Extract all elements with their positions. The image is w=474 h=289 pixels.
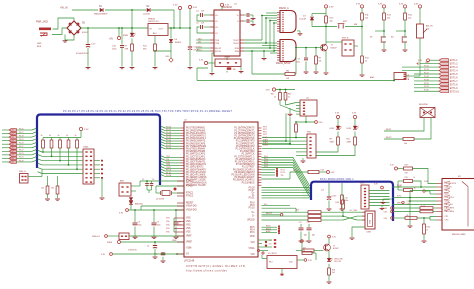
svg-text:P0.19: P0.19: [19, 139, 23, 141]
ground: [381, 206, 383, 208]
svg-text:3.3V: 3.3V: [173, 5, 178, 7]
solder jumper AGB2: [262, 231, 278, 233]
wire: [383, 20, 385, 37]
pin stub: [181, 135, 185, 137]
wire: [369, 196, 390, 198]
svg-text:P0.4/SCK0/CAP0.1: P0.4/SCK0/CAP0.1: [186, 137, 207, 140]
wire: [354, 119, 356, 126]
svg-text:EXT2-10: EXT2-10: [450, 91, 460, 93]
svg-text:P0.11/CTS1/CAP1.: P0.11/CTS1/CAP1.: [186, 155, 206, 158]
svg-text:C15: C15: [345, 197, 348, 199]
junction: [409, 197, 411, 199]
pin CP1: [437, 216, 443, 218]
bus tap: [302, 187, 310, 189]
wire: [337, 132, 339, 138]
capacitor C22: [162, 252, 164, 254]
resistor R9: [315, 48, 317, 56]
svg-text:P0.11: P0.11: [264, 156, 268, 158]
svg-text:P0.6: P0.6: [250, 232, 255, 234]
junction: [261, 15, 263, 17]
wire rows MCU right fan to bus: [262, 158, 311, 186]
svg-text:0.17: 0.17: [10, 133, 13, 135]
svg-text:VREF: VREF: [172, 240, 176, 242]
resistor R31: [403, 138, 414, 141]
junction: [265, 42, 267, 44]
svg-text:100n: 100n: [407, 204, 411, 206]
junction: [51, 155, 53, 157]
supply +3.3V: [204, 61, 207, 64]
wire: [352, 227, 365, 237]
wire: [342, 209, 344, 216]
junction: [131, 27, 133, 29]
net flag GND: [169, 58, 173, 62]
bus MMC bus: [311, 182, 393, 221]
pushbutton RST: [338, 24, 340, 28]
pin stub: [181, 137, 185, 139]
svg-text:3.3V: 3.3V: [225, 5, 230, 7]
wire: [397, 181, 399, 190]
svg-text:P0.14: P0.14: [264, 164, 268, 166]
svg-text:P0.5/MISO0/MAT0.: P0.5/MISO0/MAT0.: [186, 140, 206, 143]
pin stub: [258, 176, 262, 178]
svg-text:PKT2: PKT2: [263, 132, 267, 134]
svg-text:C1-: C1-: [215, 21, 218, 23]
junction: [134, 209, 136, 211]
junction: [251, 50, 253, 52]
resistor R20: [295, 122, 297, 124]
wire: [325, 8, 327, 14]
junction: [265, 17, 267, 19]
pin stub: [181, 130, 185, 132]
pin stub: [258, 158, 262, 160]
resistor R11: [361, 13, 364, 20]
resistor R10: [325, 14, 327, 17]
net flag small: [257, 249, 259, 251]
wire: [296, 107, 300, 109]
wire: [361, 8, 363, 13]
capacitor C9: [305, 48, 307, 57]
pin T1IN: [210, 39, 214, 41]
wire: [262, 147, 307, 149]
svg-text:R102: R102: [427, 226, 431, 228]
svg-text:VREF=3.3: VREF=3.3: [92, 236, 100, 238]
ground: [188, 67, 193, 69]
svg-text:R9: R9: [319, 58, 321, 60]
pin R2OUT: [210, 50, 214, 52]
bus tap: [38, 150, 43, 152]
ground: [251, 23, 256, 25]
diode D3: [311, 14, 313, 17]
junction: [383, 30, 385, 32]
net flag P0.28: [2, 161, 9, 163]
wire: [384, 138, 403, 140]
pin stub: [258, 179, 262, 181]
bus tap: [161, 164, 165, 166]
resistor R19: [398, 180, 404, 182]
svg-text:P0.18: P0.18: [19, 135, 23, 137]
transistor T2: [324, 244, 331, 251]
pad: [281, 274, 284, 276]
net flag EXT1-6: [414, 76, 439, 78]
capacitor C17: [86, 44, 90, 46]
svg-text:C12: C12: [299, 222, 302, 224]
svg-text:RST: RST: [343, 21, 348, 23]
supply +3.3V: [391, 207, 394, 210]
ground: [86, 67, 91, 69]
ground: [130, 67, 135, 69]
wire: [173, 10, 175, 28]
svg-text:1k: 1k: [414, 177, 416, 179]
junction: [121, 27, 123, 29]
bus tap: [32, 157, 37, 159]
svg-text:P0.25/AD0.4/AOUT: P0.25/AD0.4/AOUT: [234, 176, 255, 179]
junction: [404, 30, 406, 32]
pin RESET: [177, 202, 184, 204]
svg-text:C13: C13: [307, 222, 310, 224]
solder jumper P0.13: [262, 171, 276, 173]
net flag EXT1-8: [414, 83, 439, 85]
wire: [296, 104, 300, 106]
svg-text:P0.12: P0.12: [264, 159, 268, 161]
IC U2 LPC2148: [184, 122, 258, 257]
bus tap: [32, 139, 37, 141]
trimmer AN_TR: [417, 24, 424, 38]
pin stub: [181, 170, 185, 172]
svg-text:RST_E: RST_E: [342, 38, 349, 40]
wire: [212, 52, 214, 54]
wire: [155, 43, 171, 51]
resistor R37: [393, 211, 420, 213]
ground: [153, 67, 158, 69]
wire: [296, 121, 315, 123]
supply +3.3V: [79, 127, 82, 130]
net TCK: [165, 162, 181, 164]
svg-text:http://www.olimex.com/dev: http://www.olimex.com/dev: [186, 269, 228, 273]
bus tap: [32, 160, 37, 162]
pin stub: [258, 145, 262, 147]
pin C2+: [210, 26, 214, 28]
resistor R9: [337, 137, 340, 145]
svg-text:PWR_JACK: PWR_JACK: [36, 21, 49, 24]
resistor R25: [308, 211, 321, 214]
svg-text:VSSA: VSSA: [249, 247, 255, 250]
bus tap: [161, 142, 165, 144]
diode D7: [169, 39, 173, 42]
svg-text:LPC2148: LPC2148: [184, 260, 195, 263]
svg-text:BUZ1: BUZ1: [386, 129, 392, 131]
wire: [337, 119, 339, 126]
pin XTAL2: [177, 185, 184, 187]
resistor RN4 1k: [68, 138, 70, 141]
svg-text:0.18: 0.18: [10, 137, 13, 139]
svg-text:0.25: 0.25: [10, 158, 13, 160]
svg-text:P0.18: P0.18: [424, 76, 429, 78]
net P0.18: [165, 132, 181, 134]
wire: [316, 145, 338, 152]
wire: [369, 193, 390, 195]
svg-text:P0.25: P0.25: [166, 147, 171, 149]
svg-text:VSSA-DIG: VSSA-DIG: [186, 205, 197, 208]
transistor T1: [321, 44, 328, 51]
svg-text:MMC/SD CARD: MMC/SD CARD: [452, 233, 466, 236]
svg-text:VSS: VSS: [186, 221, 191, 223]
bus tap: [161, 175, 165, 177]
ground: [403, 49, 408, 51]
jumper VREF: [119, 233, 129, 240]
wire: [413, 169, 437, 184]
pin T2OUT: [240, 42, 244, 44]
ground: [327, 281, 332, 283]
svg-text:V18A: V18A: [186, 247, 192, 250]
svg-text:LPWR: LPWR: [224, 57, 231, 59]
svg-text:3.3V: 3.3V: [193, 7, 198, 9]
svg-text:P0.13: P0.13: [424, 69, 429, 71]
wire: [105, 9, 146, 11]
voltage regulator VREG1: [148, 24, 168, 36]
svg-text:+VL_USB: +VL_USB: [349, 210, 358, 212]
junction: [315, 47, 317, 49]
resistor RN5 1k: [76, 138, 78, 141]
supply +3.3V: [301, 240, 304, 243]
pin stub: [181, 145, 185, 147]
svg-text:3.3V: 3.3V: [414, 3, 419, 5]
svg-text:PKT3: PKT3: [263, 134, 267, 136]
net TX1: [196, 42, 210, 44]
svg-text:R9: R9: [330, 139, 332, 141]
svg-text:XTAL2: XTAL2: [186, 185, 193, 188]
svg-text:SM4001/MELF: SM4001/MELF: [94, 14, 108, 16]
junction: [305, 121, 307, 123]
wire: [410, 190, 437, 192]
svg-text:P1.24/TRACECLK: P1.24/TRACECLK: [236, 148, 255, 151]
bus tap: [32, 153, 37, 155]
junction blob: [174, 188, 177, 191]
svg-text:100n: 100n: [345, 200, 349, 202]
svg-text:C14: C14: [321, 189, 324, 191]
wire: [42, 148, 44, 152]
junction: [173, 27, 175, 29]
capacitor C5A: [145, 183, 149, 185]
pin VBAT: [177, 235, 184, 237]
supply +3.3V: [403, 5, 406, 8]
svg-text:P1.28/TDI/MAT1.2: P1.28/TDI/MAT1.2: [236, 158, 256, 161]
wire: [204, 14, 211, 16]
svg-text:C9: C9: [298, 59, 300, 61]
wire: [131, 39, 133, 45]
bus tap: [32, 150, 37, 152]
svg-text:R16: R16: [288, 94, 291, 96]
wire: [94, 177, 100, 179]
pin stub: [258, 135, 262, 137]
junction: [273, 50, 275, 52]
supply +3.3V: [395, 167, 398, 170]
connector USB: [365, 211, 375, 229]
bus tap: [161, 131, 165, 133]
capacitor C7: [247, 19, 249, 23]
svg-text:P0.19/MAT1.2/MOS: P0.19/MAT1.2/MOS: [186, 176, 207, 179]
bus tap: [38, 163, 43, 165]
bus tap: [161, 129, 165, 131]
ground: [314, 71, 319, 73]
wire: [419, 8, 421, 24]
resistor R22: [398, 189, 404, 191]
svg-text:EXT1-4: EXT1-4: [450, 71, 459, 73]
wire: [312, 252, 316, 254]
pin stub: [181, 140, 185, 142]
wire: [262, 144, 307, 146]
wire: [94, 164, 100, 166]
svg-text:2k: 2k: [303, 250, 305, 252]
pin stub: [362, 219, 365, 221]
svg-text:1k: 1k: [49, 135, 51, 137]
pin stub: [258, 130, 262, 132]
wire: [301, 242, 303, 251]
wire: [94, 160, 100, 162]
ferrite FB1: [252, 73, 285, 75]
wire: [65, 35, 74, 41]
pin stub: [181, 167, 185, 169]
pin stub: [258, 169, 262, 171]
net RTCK: [165, 170, 181, 172]
wire: [204, 26, 211, 28]
wire: [131, 190, 136, 192]
net flag P0.18: [2, 136, 9, 138]
wire: [311, 20, 313, 26]
svg-text:P1.22/PIPESTAT1: P1.22/PIPESTAT1: [236, 142, 255, 145]
svg-text:RESET: RESET: [186, 203, 194, 205]
solder jumper RB.04: [262, 229, 278, 231]
pin stub: [258, 148, 262, 150]
pin CD/DAT3/CS: [437, 183, 443, 185]
pin stub: [258, 174, 262, 176]
wire: [52, 28, 68, 35]
svg-text:P0.30/AD0.3/EINT3: P0.30/AD0.3/EINT3: [234, 171, 255, 174]
svg-text:LED2: LED2: [347, 128, 352, 130]
svg-text:M1: M1: [458, 176, 461, 178]
solder jumper TRL: [262, 174, 276, 176]
wire: [396, 30, 405, 32]
supply +3.3V: [324, 5, 327, 8]
wire: [296, 47, 322, 49]
svg-text:P0.23: P0.23: [19, 153, 23, 155]
wire USB crossover: [321, 211, 337, 213]
svg-text:P0.23/VBUS: P0.23/VBUS: [242, 182, 255, 184]
wire: [154, 51, 156, 67]
wire: [42, 168, 83, 170]
connector JTAG: [83, 149, 94, 184]
bridge rectifier D5: [67, 21, 81, 35]
ground: [298, 33, 303, 35]
svg-text:0.19: 0.19: [10, 140, 13, 142]
resistor R18: [404, 167, 413, 170]
svg-text:UEXT: UEXT: [360, 182, 366, 184]
pin stub: [258, 166, 262, 168]
svg-text:P1.31: P1.31: [166, 172, 171, 174]
svg-text:TRL: TRL: [281, 175, 284, 177]
ferrite bead FB1: [227, 67, 232, 69]
pin stub: [181, 148, 185, 150]
resistor R12: [361, 56, 364, 63]
net P1.31: [165, 173, 181, 175]
connector ICSP J1: [300, 100, 317, 116]
pin R1OUT: [210, 47, 214, 49]
junction: [131, 9, 133, 11]
svg-text:COPYRIGHT(C) ANGEL OLIMEX L: COPYRIGHT(C) ANGEL OLIMEX LTD: [186, 264, 245, 268]
wire: [354, 132, 356, 138]
svg-text:T1IN: T1IN: [215, 40, 220, 42]
svg-text:C18: C18: [407, 201, 410, 203]
capacitor C4: [154, 242, 156, 245]
wire: [208, 62, 215, 64]
svg-text:R15: R15: [347, 139, 350, 141]
capacitor 100n: [153, 210, 155, 222]
pin RTXC1: [177, 192, 184, 194]
wire: [328, 264, 330, 268]
wire: [262, 194, 303, 196]
pin stub: [258, 171, 262, 173]
pin CLK/SCLK: [437, 197, 443, 199]
svg-text:EXT1-8: EXT1-8: [450, 84, 459, 86]
ground: [55, 198, 60, 200]
wire: [226, 56, 228, 60]
pin C2-: [210, 32, 214, 34]
svg-text:1k: 1k: [58, 135, 60, 137]
wire: [279, 100, 281, 105]
svg-text:VSS: VSS: [186, 232, 191, 234]
wire: [72, 9, 98, 11]
LED LED1: [336, 126, 340, 129]
bus tap: [161, 169, 165, 171]
bus tap: [161, 139, 165, 141]
wire: [384, 118, 424, 132]
supply VDD small: [423, 190, 425, 192]
svg-text:C4: C4: [147, 246, 149, 248]
svg-text:TD1: TD1: [269, 244, 272, 246]
pin C1-: [210, 20, 214, 22]
svg-text:BUS: BUS: [37, 46, 42, 48]
junction: [409, 200, 411, 202]
jumper RST_E: [342, 40, 354, 56]
wire: [262, 205, 291, 207]
diode D2: [147, 8, 150, 12]
svg-text:P1.29/TCK/CAP0.1: P1.29/TCK/CAP0.1: [235, 161, 256, 164]
svg-text:BUZZER: BUZZER: [419, 104, 428, 106]
supply +3.3V: [315, 121, 318, 124]
bus tap: [392, 186, 395, 188]
svg-text:P0.2/SCL0/CAP0.0: P0.2/SCL0/CAP0.0: [186, 132, 206, 135]
ground: [304, 71, 309, 73]
junction: [361, 26, 363, 28]
svg-text:D-: D-: [252, 216, 255, 218]
net SCK1: [395, 197, 437, 199]
wire +5V rail: [81, 27, 149, 29]
svg-text:MR: MR: [354, 24, 358, 26]
capacitor 100n: [175, 210, 177, 222]
wire: [87, 28, 89, 44]
supply +3.3V: [381, 186, 384, 189]
pin C1+: [210, 14, 214, 16]
wire: [47, 194, 49, 198]
wire: [130, 205, 132, 207]
svg-text:LED1: LED1: [330, 128, 335, 130]
bus tap: [161, 137, 165, 139]
wire: [393, 78, 395, 81]
bus tap: [302, 192, 310, 194]
capacitor C14: [328, 183, 330, 196]
LED USB_LINK: [327, 258, 331, 261]
svg-text:CLK/SCLK: CLK/SCLK: [445, 197, 455, 199]
wire: [295, 48, 297, 74]
